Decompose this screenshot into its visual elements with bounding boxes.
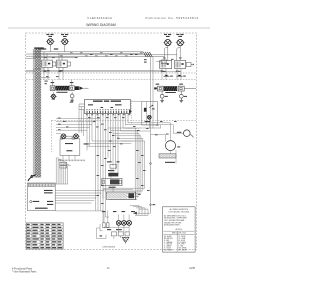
- fan motor label: [177, 132, 182, 133]
- terminal block box: [27, 183, 55, 211]
- loom top junction blob: [34, 47, 44, 49]
- terminal block to bottom cluster horizontals: [55, 190, 104, 192]
- EOC title: [93, 101, 103, 102]
- long horizontal to cluster: [55, 210, 103, 212]
- door lock motor: [147, 115, 151, 119]
- left connector caption: [57, 92, 68, 93]
- door lock arrow contact: [149, 105, 153, 108]
- branch wires to right: [121, 130, 151, 132]
- left connector terminal box B: [69, 86, 74, 91]
- switch A side box: [52, 62, 55, 66]
- right connector terminal box A: [158, 86, 164, 91]
- bottom cluster label marks: [102, 211, 105, 212]
- bake element label: [165, 162, 175, 163]
- EOC pin row: [86, 109, 130, 113]
- svg-text:W - WHITE: W - WHITE: [178, 236, 185, 238]
- svg-text:BR - BROWN: BR - BROWN: [164, 238, 173, 240]
- right connector caption: [165, 92, 175, 93]
- surface switch box right B: [175, 61, 186, 69]
- svg-text:G - GREEN: G - GREEN: [164, 246, 171, 248]
- left connector dark segment: [75, 86, 79, 90]
- right switch lower labels: [161, 71, 164, 72]
- door lock left arrow symbol: [129, 110, 132, 114]
- left connector black bar: [55, 86, 69, 91]
- surface lamp labels right pair: [164, 34, 167, 35]
- oven box side label: [84, 143, 89, 144]
- trunk top bends: [108, 127, 135, 129]
- wide element box: [106, 192, 135, 199]
- EOC to door lock wire: [131, 100, 142, 102]
- bottom right connecting wires: [133, 212, 151, 214]
- right long verticals: [150, 57, 152, 213]
- svg-text:V - VIOLET: V - VIOLET: [164, 248, 171, 250]
- indicator lamp right B: [176, 40, 185, 48]
- sensor mid text: [108, 170, 114, 171]
- plug P1 small box: [161, 60, 166, 64]
- bottom switch boxes: [111, 232, 116, 236]
- bottom cluster lamp 3: [127, 221, 132, 226]
- right branch verticals: [160, 125, 162, 129]
- indicator lamp left B: [61, 39, 69, 47]
- terminal block feed verticals: [55, 158, 57, 184]
- svg-text:WB - WH/BK: WB - WH/BK: [178, 248, 186, 250]
- svg-text:BL - BLUE: BL - BLUE: [178, 240, 185, 242]
- svg-text:* Non-Illustrated Parts: * Non-Illustrated Parts: [12, 270, 37, 273]
- svg-text:11/05: 11/05: [189, 267, 195, 270]
- terminal block neutral symbol: [30, 201, 32, 203]
- loom branch wire upper: [34, 68, 45, 70]
- small stack rectangles: [60, 162, 67, 165]
- junction circle lower: [150, 204, 152, 206]
- bottom cluster lamp 1: [116, 221, 121, 226]
- surface lamp labels left pair: [46, 34, 49, 35]
- loom twist symbol: [28, 175, 36, 182]
- lamp joining wires: [67, 135, 73, 137]
- svg-text:R - RED: R - RED: [164, 240, 169, 242]
- svg-text:D5995435813: D5995435813: [103, 247, 116, 249]
- bottom terminal rects: [103, 223, 105, 228]
- left connector lamp symbol: [50, 94, 57, 98]
- switch B output stems: [58, 68, 60, 74]
- bake element hatched bar: [159, 154, 176, 158]
- ground labels below connector: [52, 99, 55, 100]
- loom left wire: [32, 49, 34, 177]
- bottom cluster lamp 2: [122, 221, 127, 226]
- oven switch box top pads: [61, 137, 63, 139]
- right connector ground B: [179, 94, 183, 98]
- extra center branches: [92, 140, 133, 142]
- right side small box with arrow: [186, 62, 191, 66]
- switch B feed wires: [58, 53, 60, 60]
- sensor drop wires: [110, 168, 112, 173]
- svg-text:WIRING DIAGRAM: WIRING DIAGRAM: [86, 23, 116, 27]
- surface switch box left B: [57, 60, 68, 67]
- EOC internal labels: [88, 104, 93, 105]
- element stubs below partition left: [43, 73, 45, 80]
- right connector terminal box B: [178, 86, 184, 91]
- EOC drop wires long: [95, 113, 97, 210]
- surface switch box right A: [160, 61, 172, 69]
- oven lamp right: [72, 134, 79, 139]
- relay box: [102, 178, 122, 185]
- terminal feed collector line: [55, 183, 68, 185]
- right connector black bar: [164, 86, 178, 91]
- terminal block caption: [35, 208, 48, 209]
- EOC left edge pins: [79, 103, 84, 105]
- terminal block contact strip: [28, 184, 54, 187]
- svg-text:UNLESS NOTED - COPPER WIRE: UNLESS NOTED - COPPER WIRE: [164, 218, 187, 220]
- left connector arrow: [79, 86, 83, 90]
- left riser wires to lamps: [78, 104, 80, 133]
- svg-text:Y - YELLOW: Y - YELLOW: [164, 244, 173, 246]
- element box bottom wires: [103, 188, 133, 190]
- door motor stem: [148, 119, 150, 128]
- hatched wire below box: [58, 160, 85, 162]
- wiring loom band: [35, 49, 41, 178]
- right connector labels: [156, 84, 160, 85]
- bus joins to right cluster: [164, 56, 166, 60]
- legend notes box: [163, 207, 196, 252]
- wire chart table: [26, 223, 63, 249]
- svg-text:RW - RD/WH: RW - RD/WH: [178, 249, 186, 251]
- bottom left stub text: [100, 235, 103, 236]
- partition dashed line upper: [26, 72, 196, 74]
- svg-text:P - PURPLE: P - PURPLE: [178, 242, 186, 244]
- switch B side box: [67, 62, 70, 66]
- bottom cluster wires: [102, 211, 104, 223]
- door lock box: [142, 102, 158, 126]
- EOC pin labels below box: [86, 114, 130, 115]
- fan motor circle: [184, 130, 191, 137]
- sensor labels: [107, 161, 112, 162]
- door lock inner wire: [145, 102, 147, 126]
- sensor dark component: [108, 173, 118, 177]
- svg-text:PK - PINK: PK - PINK: [178, 244, 184, 246]
- loom branch labels: [45, 81, 48, 82]
- power run line B: [26, 71, 177, 73]
- outer dashed frame: [26, 33, 197, 250]
- bottom lamp stems: [118, 215, 120, 221]
- loom branch wire lower: [41, 77, 50, 79]
- ground label right B: [184, 96, 187, 97]
- door lock dashed vertical: [130, 101, 132, 126]
- lamp A drop wire: [49, 47, 51, 52]
- power run line A: [26, 69, 162, 71]
- svg-text:FLEF326ASCA: FLEF326ASCA: [88, 16, 113, 20]
- bake element drop wire: [170, 151, 172, 154]
- door lock switch blob: [144, 108, 147, 112]
- svg-text:WIRE COLOR CODE: WIRE COLOR CODE: [172, 233, 186, 235]
- ground label right A: [165, 96, 168, 97]
- chassis ground symbol: [122, 237, 129, 242]
- right connector ground A: [160, 94, 164, 98]
- oven switch box texts: [65, 143, 73, 144]
- wire color label smudges: [44, 53, 182, 204]
- indicator lamp left A: [46, 39, 54, 47]
- oven cavity dashed boundary horizontal: [52, 119, 197, 121]
- switch A output stems: [43, 68, 45, 74]
- EOC box: [84, 100, 130, 114]
- right thermal symbols above: [164, 75, 173, 77]
- indicator lamp right A: [163, 40, 172, 48]
- arrow into cluster: [133, 212, 137, 215]
- EOC drop wires short left: [86, 113, 88, 150]
- plug connector P1 hatch: [143, 52, 152, 57]
- svg-text:Publication No: 5995435813: Publication No: 5995435813: [146, 16, 199, 20]
- oven cavity dashed boundary vertical: [51, 120, 53, 152]
- surface switch box left A: [42, 60, 53, 67]
- oven lamp left: [60, 134, 67, 139]
- bottom cluster extra wires: [103, 211, 105, 223]
- EOC drop wires mid: [107, 113, 109, 158]
- right cluster drop wires: [167, 48, 169, 61]
- right connector entry tick: [154, 87, 157, 89]
- left connector labels: [51, 82, 55, 83]
- switch A feed wires: [43, 52, 45, 61]
- oven switch box: [60, 139, 80, 156]
- svg-text:GN - GREEN: GN - GREEN: [164, 249, 172, 251]
- center trunk vertical wires: [134, 128, 136, 200]
- mesh horizontal branches: [56, 117, 101, 119]
- right connector exit wire: [184, 88, 196, 90]
- top bus wires: [34, 51, 144, 53]
- conv motor feed wires: [170, 123, 172, 141]
- door lock labels: [152, 108, 155, 109]
- plug P1 labels: [144, 59, 147, 60]
- relay box caption: [109, 187, 116, 188]
- lamp B drop wire: [64, 47, 66, 52]
- partition dashed line lower: [26, 79, 196, 81]
- header rule: [8, 27, 210, 29]
- conv motor circle: [166, 141, 176, 151]
- junction circle upper: [150, 163, 152, 165]
- left border feed stubs: [26, 53, 34, 55]
- terminal block text rows: [44, 190, 53, 191]
- box bottom stems: [62, 155, 64, 159]
- wire labels row: [40, 48, 46, 49]
- left connector feed wires up: [51, 80, 53, 86]
- switch output labels: [44, 71, 47, 72]
- lower dashed line: [126, 127, 140, 129]
- right switch output stems: [161, 69, 163, 80]
- left connector ground symbol: [70, 94, 74, 98]
- sensor small box: [110, 164, 117, 168]
- left connector terminal box A: [50, 86, 55, 91]
- lock switch U wire: [96, 228, 98, 239]
- bottom texts: [107, 229, 111, 230]
- trunk stair-step bends to left: [103, 187, 145, 189]
